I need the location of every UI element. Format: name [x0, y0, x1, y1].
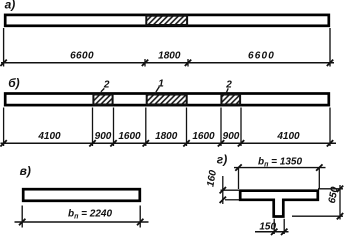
svg-text:6600: 6600 — [70, 50, 94, 61]
svg-text:4100: 4100 — [276, 131, 300, 142]
svg-text:1800: 1800 — [158, 50, 181, 61]
svg-text:г): г) — [217, 153, 227, 167]
svg-text:1800: 1800 — [155, 131, 178, 142]
svg-text:4100: 4100 — [37, 131, 61, 142]
svg-text:1600: 1600 — [192, 131, 215, 142]
svg-text:б): б) — [8, 76, 19, 90]
svg-text:900: 900 — [95, 131, 112, 142]
svg-text:6600: 6600 — [248, 50, 275, 61]
svg-text:900: 900 — [223, 131, 240, 142]
svg-text:150: 150 — [259, 221, 276, 232]
svg-text:1600: 1600 — [118, 131, 141, 142]
svg-text:а): а) — [5, 0, 16, 12]
svg-text:в): в) — [20, 164, 31, 178]
svg-text:2: 2 — [225, 80, 232, 91]
